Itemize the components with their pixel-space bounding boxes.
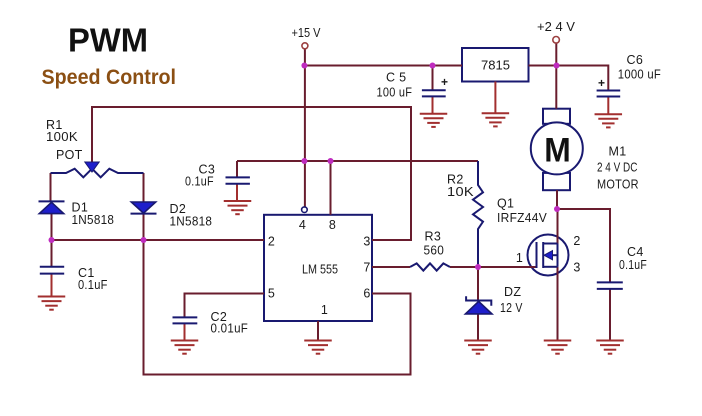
wire pin 1 ground lead [317,321,319,341]
ground (C2) [171,341,199,354]
motor M1 bottom terminal block [543,173,570,190]
junction motor / drain / C4 [554,206,560,212]
wire pin 8 supply drop [330,161,332,215]
ground (C1) [38,297,66,310]
ground (pin 1) [304,341,332,354]
capacitor C5 plates [422,90,446,96]
ground (Q1 source) [544,341,572,354]
potentiometer R1 wiper arrow [85,162,99,172]
ground (C6) [595,114,623,127]
transistor Q1 drain tap [543,243,557,245]
svg-text:MOTOR: MOTOR [597,178,639,192]
motor M1 top terminal block [543,109,570,124]
svg-text:1: 1 [516,251,523,265]
junction R3 / R2 / DZ / gate [475,264,481,270]
svg-text:+15 V: +15 V [292,26,322,40]
potentiometer R1 track [51,169,144,178]
wire C2 to ground [184,323,186,340]
wire +15V vertical drop to pin 4 [304,49,306,207]
svg-text:7: 7 [363,260,370,274]
wire C6 top drop [607,65,609,91]
wire trigger row to pin 2 [52,239,265,241]
ground (DZ) [464,341,492,354]
wire pot wiper feedback top rail [92,107,411,240]
svg-text:0.1uF: 0.1uF [185,175,214,189]
transistor Q1 gate bar [536,242,538,268]
resistor R3 zigzag [410,263,450,270]
svg-text:12 V: 12 V [500,301,523,315]
svg-text:5: 5 [268,287,275,301]
ground (7815) [482,113,510,126]
svg-text:6: 6 [363,287,370,301]
diode D2 cathode bar [131,213,157,215]
svg-text:100K: 100K [46,130,78,144]
svg-text:7815: 7815 [481,59,510,73]
wire C1 to ground [51,274,53,297]
pin 4 terminal circle [302,207,308,213]
zener diode DZ cathode bar with bent ends [466,296,491,305]
wire C5 top drop [432,66,434,91]
svg-text:POT: POT [56,148,83,162]
svg-text:8: 8 [329,218,336,232]
wire 7815 output to +24V node [529,65,609,67]
svg-text:1: 1 [321,303,328,317]
svg-text:1N5818: 1N5818 [170,215,213,229]
wire DZ to ground [477,314,479,341]
wire pin 7 to R3 [372,266,410,268]
ground (C4) [596,341,624,354]
svg-text:1N5818: 1N5818 [72,213,115,227]
wire R3 to gate junction to Q1 gate pin 1 [450,266,537,268]
wire C1 top drop [51,240,53,267]
regulator U2 7815 body [462,48,529,82]
wire +24V terminal drop to motor [555,43,557,109]
wire motor to drain node [556,190,558,209]
wire pot left terminal to D1 [50,173,52,201]
diode D1 triangle [39,202,63,213]
svg-text:3: 3 [573,261,580,275]
ground (C3) [224,201,252,214]
svg-text:+: + [598,76,605,90]
resistor R2 zigzag [473,161,483,267]
terminal +15V [302,43,308,49]
capacitor C4 plates [597,282,623,289]
svg-text:Q1: Q1 [497,197,514,211]
junction +15V rail [301,63,307,69]
svg-text:2: 2 [268,234,275,248]
capacitor C1 plates [40,267,64,274]
svg-text:R3: R3 [425,230,442,244]
svg-text:+2 4 V: +2 4 V [537,20,576,34]
terminal +24V [553,37,560,44]
junction D2 / feedback loop [141,237,147,243]
svg-text:C 5: C 5 [386,71,406,85]
svg-text:0.1uF: 0.1uF [619,258,647,272]
wire 7815 ground lead [494,82,496,114]
wire pot right terminal to D2 [143,173,145,202]
transistor Q1 bulk tap [553,254,558,256]
wire DZ top lead [477,267,479,301]
transistor Q1 body circle [528,235,569,276]
junction pin 8 supply [328,158,334,164]
IC U1 LM555 body [264,215,372,321]
svg-text:PWM: PWM [68,23,148,60]
svg-text:C6: C6 [627,53,644,67]
wire C6 to ground [607,97,609,115]
svg-text:10K: 10K [447,185,474,199]
transistor Q1 source tap [543,266,557,268]
wire pin 6 to pin 2 feedback loop [144,240,411,375]
svg-text:1000 uF: 1000 uF [618,67,661,81]
svg-text:0.01uF: 0.01uF [211,322,249,336]
wire C4 to ground [609,289,611,341]
wire C3 top drop [236,161,238,177]
junction C5 node [430,63,436,69]
capacitor C6 plates [597,91,621,97]
wire Q1 source to ground [557,267,559,341]
wire C3 to ground [236,184,238,201]
svg-text:3: 3 [363,234,370,248]
svg-text:2 4 V DC: 2 4 V DC [597,161,637,175]
diode D2 triangle [131,202,155,213]
svg-text:IRFZ44V: IRFZ44V [497,211,547,225]
svg-text:560: 560 [424,244,445,258]
junction +15V at distribution rail [301,158,307,164]
svg-text:Speed Control: Speed Control [42,65,177,89]
wire drain node to C4 [557,209,610,282]
capacitor C2 plates [173,317,198,323]
svg-text:100 uF: 100 uF [377,86,413,100]
transistor Q1 right vertical [557,244,559,267]
svg-text:LM 555: LM 555 [302,263,338,277]
junction D1 / C1 / trigger [49,237,55,243]
wire +15V distribution rail [237,160,478,162]
svg-text:C4: C4 [627,245,644,259]
transistor Q1 bulk arrow [544,251,553,260]
capacitor C3 plates [226,177,250,183]
svg-text:M1: M1 [609,145,627,159]
wire Q1 drain vertical [557,209,559,244]
diode D1 cathode bar [39,200,65,202]
ground (C5) [420,114,448,127]
transistor Q1 channel bar [542,242,544,268]
zener diode DZ triangle [465,301,492,314]
junction +24V node [554,63,560,69]
motor M1 body circle [531,122,583,174]
wire C5 to ground [432,96,434,113]
wire D1 anode down to trigger row [51,214,53,241]
svg-text:M: M [544,132,571,170]
svg-text:0.1uF: 0.1uF [78,278,108,292]
wire D2 cathode down to trigger row [143,214,145,241]
svg-text:DZ: DZ [504,285,521,299]
svg-text:+: + [441,75,448,89]
wire +15V rail to 7815 input [304,65,462,67]
svg-text:2: 2 [573,234,580,248]
svg-text:4: 4 [299,218,306,232]
wire pin 5 to C2 [185,294,265,318]
